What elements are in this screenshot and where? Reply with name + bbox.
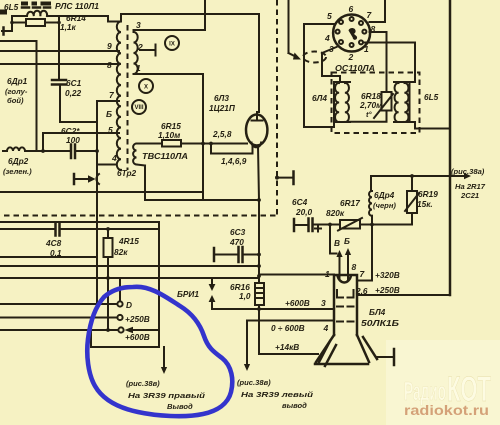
resistor 6R14	[26, 19, 45, 26]
svg-text:На 3R39 левый: На 3R39 левый	[241, 390, 313, 399]
svg-text:2: 2	[137, 42, 143, 52]
wire tap5	[43, 133, 119, 151]
svg-text:+600В: +600В	[285, 298, 310, 308]
wire 6L5 bottom to right bus	[410, 122, 451, 129]
test point X	[139, 79, 153, 93]
wire left stub y31	[2, 30, 12, 32]
svg-text:Вывод: Вывод	[167, 402, 193, 411]
wire x36 drop to 6Dr2 line	[36, 41, 38, 151]
svg-text:3: 3	[136, 20, 141, 30]
svg-text:вывод: вывод	[282, 401, 307, 410]
svg-text:0,22: 0,22	[65, 88, 82, 98]
wire 4R15 leads	[107, 229, 109, 330]
resistor 4R15	[104, 238, 113, 257]
svg-text:2: 2	[348, 52, 354, 62]
wire socket pin8 to 6R18	[370, 32, 387, 92]
junction 6R16 bottom	[257, 307, 261, 311]
svg-text:На 3R39 правый: На 3R39 правый	[128, 391, 205, 400]
svg-text:На 2R17: На 2R17	[455, 182, 486, 191]
wire socket pin5 left	[304, 23, 334, 25]
svg-text:4R15: 4R15	[118, 236, 139, 246]
coil 6L4	[334, 82, 350, 122]
svg-text:1: 1	[136, 63, 141, 73]
arrow to yoke	[289, 53, 296, 57]
terminal +250V wire	[0, 317, 117, 319]
capacitor 6C4 terminal bar	[293, 219, 296, 231]
svg-text:бой): бой)	[7, 96, 24, 105]
wire x304 through yoke	[303, 24, 305, 127]
wire CRT pin7	[357, 280, 372, 282]
resistor 6R19	[407, 191, 417, 213]
wire x203 vertical	[202, 74, 204, 200]
svg-text:6Др4: 6Др4	[374, 190, 395, 200]
svg-text:(зелен.): (зелен.)	[3, 167, 32, 176]
svg-text:15к.: 15к.	[417, 199, 433, 209]
svg-text:6Л3: 6Л3	[214, 93, 229, 103]
svg-text:4С8: 4С8	[45, 238, 62, 248]
wire 6C3 left lead	[214, 254, 237, 256]
wire resistor 6R14 leads	[12, 22, 59, 24]
svg-text:(рис.38а): (рис.38а)	[451, 167, 485, 176]
junction y278/cathode	[257, 274, 261, 278]
aquadag terminal bar	[393, 349, 396, 365]
svg-text:3: 3	[321, 298, 326, 308]
wire right vertical bus x450	[449, 0, 452, 295]
svg-text:(голу-: (голу-	[5, 87, 28, 96]
svg-text:+14кВ: +14кВ	[275, 342, 299, 352]
svg-text:(рис.38в): (рис.38в)	[237, 378, 271, 387]
svg-text:1,0: 1,0	[239, 291, 251, 301]
resistor 6R17	[340, 220, 360, 229]
CRT bell bottom	[315, 363, 368, 366]
dashed deflection unit box	[332, 73, 420, 134]
CRT electrode brackets	[337, 290, 354, 298]
choke 6Dr4	[370, 176, 372, 191]
svg-text:1,1к: 1,1к	[60, 22, 77, 32]
capacitor 6C2 plates	[71, 145, 75, 159]
terminal +600V wire left	[0, 329, 118, 331]
arrow to 2R17	[450, 175, 465, 177]
bus y51 tap9	[0, 50, 119, 52]
fuse 6L5 segmented bar	[21, 2, 51, 6]
svg-text:100: 100	[66, 135, 80, 145]
transformer right winding pins 3-1	[134, 32, 138, 74]
junction node left	[10, 21, 14, 25]
wire 6L4 bottom to yoke line	[304, 122, 334, 127]
svg-text:+320В: +320В	[375, 270, 400, 280]
spark gap wire	[74, 178, 88, 180]
svg-text:6R19: 6R19	[418, 189, 438, 199]
junction 4R15 top	[106, 227, 110, 231]
svg-text:6С4: 6С4	[292, 197, 308, 207]
capacitor 6C3 plates	[239, 247, 243, 262]
junction x211	[209, 142, 213, 146]
bus y257	[0, 256, 97, 258]
svg-text:(черн): (черн)	[373, 201, 396, 210]
wire aquadag terminal	[377, 356, 394, 358]
svg-text:В: В	[334, 238, 340, 248]
svg-text:+250В: +250В	[125, 314, 150, 324]
svg-text:820к: 820к	[326, 208, 345, 218]
terminal +250V circle	[117, 315, 122, 320]
svg-text:БЛ4: БЛ4	[369, 307, 386, 317]
test point VIII	[132, 100, 146, 114]
svg-text:4: 4	[324, 33, 330, 43]
blue marker circle	[87, 287, 232, 416]
socket key blob	[349, 28, 358, 40]
wire CRT pin3 +600V	[212, 308, 334, 310]
wire socket pin3 to 6L4 coil	[322, 47, 340, 82]
dashed shield horizontal y215	[4, 215, 277, 217]
capacitor 6C4 plates	[309, 219, 313, 232]
spark gap electrode bar	[73, 174, 76, 184]
wire tap7	[97, 100, 119, 102]
svg-text:8: 8	[107, 60, 112, 70]
CRT bell left wall	[316, 335, 334, 362]
resistor 6R15	[162, 140, 181, 147]
svg-text:6L5: 6L5	[424, 92, 439, 102]
junction y266/cathode	[257, 264, 261, 268]
socket pin holes	[339, 20, 343, 24]
wire anode bus y14 to tube top cap	[121, 14, 259, 112]
svg-text:470: 470	[229, 237, 244, 247]
wire CRT pin4	[247, 320, 334, 322]
capacitor 6C1 plates	[52, 80, 66, 85]
svg-text:0 ÷ 600В: 0 ÷ 600В	[271, 323, 305, 333]
wire winding3 top y30	[134, 30, 206, 32]
arrow to 3R39 left	[246, 321, 248, 366]
wire TVS bottom to x145	[137, 165, 146, 201]
terminal on shield line	[275, 176, 279, 180]
junction 4R15 bottom	[106, 328, 110, 332]
resistor 6R16	[255, 283, 264, 305]
junction 6C2/x97	[95, 149, 99, 153]
arrester BRI1 lower arrow	[211, 301, 213, 309]
wire tap2 with bar	[140, 45, 156, 56]
capacitor 6C3 terminal bar	[213, 248, 216, 261]
wire 6C4 to 6R17	[314, 224, 340, 226]
svg-text:VIII: VIII	[134, 105, 143, 111]
bus y192 left	[0, 191, 203, 193]
wire CRT pin2,6 to right bus	[357, 294, 450, 296]
bus y222	[0, 221, 159, 223]
transformer 6Tr2 left winding	[117, 22, 121, 170]
wire left node vertical	[11, 16, 13, 31]
wire +600V from box	[131, 329, 159, 331]
svg-text:Б: Б	[106, 109, 112, 119]
wire cathode vertical x259	[258, 146, 259, 309]
test point IX	[165, 36, 179, 50]
wire 6R19 leads	[360, 176, 412, 225]
filament arrow V	[339, 256, 341, 280]
svg-text:+600В: +600В	[125, 332, 150, 342]
svg-text:Б: Б	[344, 236, 350, 246]
page edge connector bar	[0, 10, 7, 15]
wire 6C1 bottom to x97	[60, 85, 97, 123]
terminal D wire	[0, 303, 117, 305]
wire right node vertical to C1	[58, 16, 60, 79]
junction 4R15/y278	[106, 276, 110, 280]
svg-text:6: 6	[349, 4, 354, 14]
wire tap4 jog	[97, 164, 116, 166]
svg-text:6Др2: 6Др2	[8, 156, 29, 166]
bus y278 to spark gap BRI1	[0, 277, 259, 279]
choke 6Dr2	[3, 147, 70, 151]
svg-text:5: 5	[327, 11, 332, 21]
thermistor 6R18	[382, 92, 392, 111]
junction 6Dr4 bottom	[370, 223, 374, 227]
wire pin1 CRT	[259, 274, 334, 276]
terminal +600V circle	[118, 327, 123, 332]
CRT bell right wall	[357, 335, 369, 362]
svg-text:9: 9	[107, 41, 112, 51]
wire winding1 bottom y74	[134, 73, 204, 75]
bus y200 to cathode	[145, 199, 259, 201]
wire 6C3 right lead	[244, 254, 259, 256]
arrow to 3R39 right	[163, 347, 165, 368]
dashed shield vertical x277	[276, 0, 278, 216]
CRT neck walls	[334, 275, 357, 335]
thermistor arrow	[374, 94, 393, 118]
svg-text:4: 4	[111, 153, 117, 163]
capacitor 4C8 plates	[56, 223, 60, 236]
wire filament feed drop	[330, 225, 337, 254]
svg-text:20,0: 20,0	[295, 207, 313, 217]
svg-text:82к: 82к	[114, 247, 128, 257]
lighter watermark area	[386, 340, 500, 425]
svg-text:ТВС110ЛА: ТВС110ЛА	[142, 151, 188, 161]
CRT aquadag left slashes	[319, 341, 336, 366]
svg-text:8: 8	[352, 262, 357, 272]
svg-text:6Тр2: 6Тр2	[117, 168, 137, 178]
svg-text:1: 1	[364, 44, 369, 54]
wire 6R15 leads	[137, 143, 248, 145]
tube anode bar	[252, 112, 263, 121]
terminal D circle	[117, 301, 122, 306]
filament arrow B	[347, 254, 349, 280]
svg-text:6С1: 6С1	[66, 78, 82, 88]
transformer core dashed	[127, 25, 129, 170]
wire feed to transformer top	[108, 14, 121, 22]
wire x159 vertical	[158, 222, 160, 347]
svg-text:БРИ1: БРИ1	[177, 289, 199, 299]
junction 6R19 top	[410, 174, 414, 178]
wire top corner x205	[204, 0, 206, 30]
CRT aquadag right slash	[363, 337, 377, 359]
plus sign 6C4	[315, 226, 321, 232]
svg-text:IX: IX	[169, 42, 175, 48]
svg-text:6R17: 6R17	[340, 198, 360, 208]
svg-text:X: X	[144, 85, 148, 91]
junction cathode/bus	[257, 198, 261, 202]
CRT grid dashes row2	[337, 321, 354, 323]
junction node right	[57, 21, 61, 25]
svg-text:1Ц21П: 1Ц21П	[209, 103, 236, 113]
bus y64 tap8	[0, 63, 119, 65]
svg-text:6Л4: 6Л4	[312, 93, 327, 103]
TVS winding (transformer right lower)	[133, 144, 136, 165]
svg-text:1,10м: 1,10м	[158, 130, 180, 140]
svg-text:6Др1: 6Др1	[7, 76, 28, 86]
wire 14kV drop	[259, 309, 318, 354]
terminal tick at left edge	[2, 28, 5, 35]
fuse dashes	[22, 6, 50, 9]
svg-text:2С21: 2С21	[460, 191, 479, 200]
svg-text:Радио: Радио	[404, 376, 446, 406]
wire socket pin7 up	[370, 0, 386, 22]
spark gap cathode arc	[96, 174, 99, 184]
wire anode supply y176	[371, 175, 450, 177]
wire 6C4 left lead	[294, 224, 307, 226]
svg-text:D: D	[126, 300, 132, 310]
bus y266	[0, 265, 259, 267]
wire x288 top	[288, 0, 290, 53]
arrow into +600V	[125, 327, 134, 333]
svg-text:1,4,6,9: 1,4,6,9	[221, 156, 247, 166]
wire 6R18 bottom tie	[350, 111, 387, 122]
bus y229 with 4C8	[0, 228, 159, 230]
watermark Radio KOT	[404, 370, 491, 418]
wire x97 long vertical	[96, 101, 98, 304]
svg-text:+250В: +250В	[375, 285, 400, 295]
svg-text:50ЛК1Б: 50ЛК1Б	[361, 318, 399, 328]
wire tube lower pins	[211, 144, 253, 154]
svg-text:4: 4	[323, 323, 329, 333]
svg-text:2,5,8: 2,5,8	[212, 129, 232, 139]
coil 6L5	[394, 82, 410, 122]
terminal D drop from bus	[119, 278, 121, 301]
svg-text:radiokot.ru: radiokot.ru	[404, 403, 489, 418]
deflection yoke dashed ellipse	[303, 52, 326, 63]
CRT base dome	[338, 276, 352, 283]
CRT grid dashes row1	[337, 306, 354, 308]
wire socket pin1 to 6L5 coil	[363, 43, 415, 83]
svg-text:t°: t°	[366, 110, 373, 119]
junction 6C3/cathode	[257, 253, 261, 257]
svg-text:1: 1	[325, 269, 330, 279]
wire box bottom loop	[91, 330, 159, 347]
inductor L of RLS (coil on wire y16)	[12, 11, 108, 16]
wire 6C2 right	[77, 150, 98, 152]
junction 6Dr2/tap5	[41, 149, 45, 153]
bus y41	[0, 40, 37, 42]
spark gap triangle	[88, 175, 96, 183]
svg-text:(рис.38в): (рис.38в)	[126, 379, 160, 388]
tube 6L3 1Ts21P envelope	[246, 115, 267, 146]
tube cathode nub	[252, 143, 262, 148]
svg-text:РЛС 110Л1: РЛС 110Л1	[55, 1, 99, 11]
svg-text:2,70м: 2,70м	[359, 100, 382, 110]
tube socket OS110LA circle	[333, 15, 370, 52]
svg-text:6С3: 6С3	[230, 227, 246, 237]
junction filament feed	[328, 223, 332, 227]
bus jog x203	[202, 192, 204, 200]
arrester BRI1 upper arrow	[211, 278, 213, 285]
junction x203 heater wire	[201, 142, 205, 146]
